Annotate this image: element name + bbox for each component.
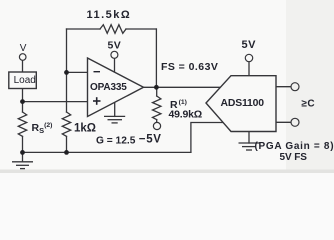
resistor R1 11.5k zigzag [100, 25, 126, 34]
wire 1k top segment [66, 72, 68, 112]
junction node: RS bottom rail [20, 150, 25, 155]
wire bottom ground rail [23, 151, 191, 153]
junction node: inverting input [64, 70, 69, 75]
terminal -5V circle [153, 122, 160, 129]
terminal V circle [19, 54, 26, 61]
svg-text:49.9kΩ: 49.9kΩ [169, 109, 203, 121]
wire Load to +input node [22, 88, 24, 102]
wire 5V stub op-amp [114, 58, 116, 72]
wire ADC ground stub [248, 132, 250, 144]
resistor R2 1k zigzag [62, 112, 70, 136]
junction node: +input / load [20, 99, 25, 104]
wire op-amp V- stub to ground [114, 102, 116, 117]
wire RS top segment [22, 102, 24, 112]
wire inverting input (node to op-amp minus) [67, 71, 88, 73]
wire V terminal to Load [22, 61, 24, 72]
svg-text:−5V: −5V [139, 134, 162, 146]
ADC U2 ADS1100 pentagon [206, 76, 276, 132]
op-amp U1 OPA335 triangle [88, 58, 144, 117]
svg-text:5V: 5V [242, 39, 257, 51]
terminal 5V ADC circle [245, 54, 252, 61]
junction node: 1k bottom rail [64, 150, 69, 155]
wire L-bend up to ADC VIN- [191, 123, 223, 153]
wire 49.9k to -5V terminal [156, 120, 158, 123]
svg-text:5V: 5V [108, 40, 122, 52]
svg-text:V: V [20, 43, 27, 54]
wire feedback top horizontal left segment [67, 28, 101, 30]
ground (op-amp V-) [104, 116, 125, 123]
wire feedback top horizontal right segment [126, 28, 156, 30]
ground (ADC) [239, 143, 260, 150]
svg-text:ADS1100: ADS1100 [221, 98, 265, 109]
wire +input rail [23, 101, 88, 103]
wire op-amp output to ADC VIN+ [144, 86, 221, 88]
Load box [9, 72, 37, 89]
svg-text:(PGA Gain = 8): (PGA Gain = 8) [255, 141, 334, 152]
wire 5V stub ADC [248, 62, 250, 76]
wire RS bottom to ground rail [22, 136, 24, 152]
svg-text:FS = 0.63V: FS = 0.63V [161, 61, 218, 73]
op-amp plus sign [93, 97, 101, 105]
wire ADC output pin lower [276, 121, 291, 123]
svg-text:5V FS: 5V FS [280, 152, 308, 163]
terminal 5V op-amp circle [111, 51, 118, 58]
resistor RS zigzag [18, 112, 26, 136]
wire 49.9k resistor top stub [156, 87, 158, 96]
svg-text:11.5kΩ: 11.5kΩ [87, 9, 132, 21]
junction node: op-amp output [154, 85, 159, 90]
wire feedback top left vertical [66, 29, 68, 72]
op-amp minus sign [94, 71, 101, 73]
terminal SCL circle (lower right) [291, 118, 299, 126]
wire ADC output pin upper [276, 86, 291, 88]
svg-text:G = 12.5: G = 12.5 [96, 136, 136, 147]
svg-text:OPA335: OPA335 [90, 82, 127, 93]
ground (bottom left) [12, 152, 33, 168]
svg-text:≥C: ≥C [302, 99, 316, 110]
wire 1k bottom to ground rail [66, 136, 68, 152]
resistor R1(49.9k) zigzag [153, 96, 161, 120]
wire feedback right vertical down to output node [155, 29, 157, 87]
svg-text:Load: Load [14, 75, 36, 86]
svg-text:1kΩ: 1kΩ [74, 123, 96, 135]
terminal SDA circle (upper right) [291, 83, 299, 91]
